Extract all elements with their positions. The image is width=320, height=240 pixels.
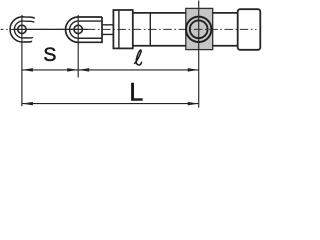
eyelet 2 / body rounded end outer outline: [66, 17, 102, 42]
grip ring section (gray square): [186, 8, 213, 49]
ring outer circle: [186, 17, 211, 42]
main cylinder body (left of gray ring): [133, 13, 186, 46]
dimension line S and l (upper row): [22, 69, 199, 71]
eyelet 2 inner lines: [70, 21, 102, 38]
main cylinder body (right of gray ring): [213, 13, 238, 46]
dimension line L (lower row): [22, 103, 199, 105]
wire link between eyelets: [13, 28, 88, 30]
arrow right of l: [188, 68, 199, 72]
arrow right of L: [188, 102, 199, 106]
collar inner edge: [118, 10, 120, 48]
body section junction line: [149, 13, 151, 46]
extension line / center line through ring: [198, 1, 200, 108]
centerline (horizontal dash-dot axis): [1, 28, 257, 30]
eyelet 2 hole: [74, 25, 82, 33]
ring inner circle: [190, 20, 208, 38]
eyelet 1 inner outline: [14, 21, 34, 38]
svg-text:L: L: [129, 80, 143, 107]
eyelet 1 outer outline: [10, 17, 35, 42]
neck between eyelet body and collar: [102, 25, 113, 35]
end knob: [238, 9, 261, 50]
arrow right of S: [67, 68, 78, 72]
extension line / center line through eyelet 2: [77, 15, 79, 78]
eyelet 1 hole: [18, 25, 26, 33]
svg-text:S: S: [43, 44, 56, 66]
arrow left of S: [22, 68, 33, 72]
label l (script ell): [135, 50, 142, 65]
arrow left of l: [78, 68, 89, 72]
extension line / center line through eyelet 1: [21, 15, 23, 106]
arrow left of L: [22, 102, 33, 106]
collar and head rectangle: [113, 10, 132, 48]
